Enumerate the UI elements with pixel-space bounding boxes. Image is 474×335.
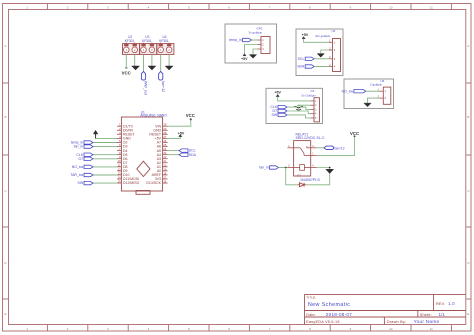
svg-text:TITLE:: TITLE: <box>306 295 316 299</box>
ground (GP1) <box>249 55 256 59</box>
svg-text:1/1: 1/1 <box>439 312 446 317</box>
power flag +5V (U5) <box>302 33 309 39</box>
svg-text:E: E <box>4 312 6 316</box>
wire temp_in to GP1.1 <box>252 39 258 41</box>
RELAY1 pin 5 (coil left) <box>287 165 293 168</box>
wire U1 to net TAR_sw <box>93 174 117 176</box>
svg-text:10: 10 <box>389 5 393 9</box>
svg-text:+5V: +5V <box>302 33 309 37</box>
screw terminal U4 KF301 <box>157 35 174 54</box>
svg-text:New Schematic: New Schematic <box>308 302 350 308</box>
svg-text:WW_out: WW_out <box>144 81 148 95</box>
svg-text:SRD-12VDC-SL-C: SRD-12VDC-SL-C <box>296 136 325 140</box>
wire SDA to U5.4 <box>314 66 329 68</box>
svg-text:KF301: KF301 <box>142 39 152 43</box>
net flag NO_sw <box>84 165 93 168</box>
title block <box>305 294 466 324</box>
wire U4.2 to ground <box>168 54 170 66</box>
U1 diamond logo <box>137 161 150 176</box>
power flag VCC (relay) <box>350 131 359 137</box>
U1 right pins <box>146 123 167 186</box>
wire NO_sw to U6.1 <box>366 90 380 92</box>
svg-text:NO_sw: NO_sw <box>72 165 84 169</box>
wire U1.A5 to SCL <box>168 150 179 152</box>
RELAY1 switch arm <box>294 146 311 155</box>
connector GP1 3x goldpin <box>249 26 271 53</box>
svg-text:U5: U5 <box>332 29 336 33</box>
svg-text:fan+12: fan+12 <box>334 146 344 150</box>
wire U2.1 to VCC <box>125 54 127 68</box>
power flag +5V (GP1) <box>241 54 248 61</box>
RELAY1 pin 2 (common) <box>287 145 293 148</box>
svg-text:KF301: KF301 <box>159 39 169 43</box>
wire U6.2 to ground <box>368 98 380 103</box>
svg-text:4x1 goldpin: 4x1 goldpin <box>315 34 331 38</box>
net flag fan_in <box>270 166 279 169</box>
wire U1.+5V to +5V flag <box>168 136 181 138</box>
svg-text:B: B <box>467 115 469 119</box>
net flag SCL (U5) <box>305 57 314 60</box>
wire U1 to net temp_in <box>93 142 117 144</box>
screw terminal U2 KF301 <box>123 35 140 54</box>
svg-text:B: B <box>4 115 6 119</box>
ground arrow (U1 GND) <box>93 130 98 138</box>
svg-text:TAR_sw: TAR_sw <box>70 173 83 177</box>
net flag SW (G1) <box>278 113 287 116</box>
wire U1 to net fan_in <box>93 146 117 148</box>
svg-text:temp_in: temp_in <box>229 38 242 42</box>
module box G1 5x Goldpin <box>266 88 323 123</box>
wire G1.2 to ground arrow <box>299 105 311 106</box>
svg-text:1.0: 1.0 <box>448 301 455 306</box>
diode D1 1N4007PLS <box>297 174 320 187</box>
svg-text:REV.: REV. <box>436 302 445 306</box>
svg-text:EasyEDA V5.6.15: EasyEDA V5.6.15 <box>306 320 339 324</box>
screw terminal U3 KF301 <box>140 35 157 54</box>
wire SW to G1.5 <box>287 115 311 118</box>
svg-text:fan_in: fan_in <box>259 166 269 170</box>
RELAY1 pin 1 (NC contact) <box>311 153 317 156</box>
RELAY1 coil <box>294 165 311 171</box>
svg-text:VCC: VCC <box>186 113 195 118</box>
wire SCL to U5.3 <box>314 58 329 60</box>
RELAY1 pin 3 (NO contact) <box>311 145 317 148</box>
net label fan+12 (vertical) <box>159 71 165 92</box>
relay RELAY1 SRD-12VDC-SL-C <box>294 133 325 176</box>
wire U4.1 to net flag <box>160 54 162 71</box>
wire fan_in to RELAY1.5 <box>279 167 288 169</box>
junction (fan_in / diode) <box>285 167 287 169</box>
net flag temp_in <box>84 141 93 144</box>
net flag SCL <box>179 149 188 152</box>
wire U1 to net CLK <box>93 154 117 156</box>
svg-text:2018-08-07: 2018-08-07 <box>326 312 352 317</box>
wire DT to G1.4 <box>287 111 311 114</box>
net flag DT (G1) <box>278 109 287 112</box>
connector G1 5x Goldpin <box>302 89 320 122</box>
wire U1.A4 to SDA <box>168 154 179 156</box>
svg-text:A: A <box>467 44 469 48</box>
svg-text:SDA: SDA <box>297 65 305 69</box>
svg-text:D13/SCK: D13/SCK <box>146 181 161 185</box>
power flag +5V (U1) <box>178 131 185 136</box>
wire RELAY1.3 to fan+12 <box>316 147 324 149</box>
svg-text:D12/MISO: D12/MISO <box>123 181 140 185</box>
wire +5V to G1.1 <box>278 97 311 101</box>
svg-text:G1: G1 <box>311 89 315 93</box>
svg-text:E: E <box>467 312 469 316</box>
svg-text:10: 10 <box>389 327 393 331</box>
svg-text:5x Goldpin: 5x Goldpin <box>302 93 317 97</box>
svg-text:A: A <box>4 44 6 48</box>
net flag SDA <box>179 153 188 156</box>
net flag SW <box>84 181 93 184</box>
svg-text:11: 11 <box>430 5 433 9</box>
ground arrow (G1) <box>295 106 303 110</box>
svg-text:SW: SW <box>272 113 278 117</box>
svg-text:3x goldpin: 3x goldpin <box>249 31 263 35</box>
net flag NO_sw (U6) <box>354 90 366 93</box>
wire GP1.2 to +5V <box>245 45 258 54</box>
net flag temp_in (GP1) <box>243 38 252 41</box>
power flag VCC (U1) <box>186 113 195 121</box>
svg-text:KF301: KF301 <box>125 39 135 43</box>
svg-text:fan_in: fan_in <box>74 145 84 149</box>
svg-text:VCC: VCC <box>350 131 359 136</box>
svg-text:+5V: +5V <box>274 91 281 95</box>
wire +5V to U5.1 <box>304 39 329 43</box>
power flag +5V (G1) <box>274 91 281 97</box>
net tag fan+12 <box>324 146 345 150</box>
RELAY1 pin 4 (coil right) <box>311 165 317 168</box>
wire U3.2 to ground <box>151 54 153 66</box>
wire U5.2 to ground <box>321 50 329 53</box>
svg-text:11: 11 <box>430 327 433 331</box>
ground (U3) <box>148 66 156 70</box>
net flag fan_in <box>84 145 93 148</box>
module box U5 4x1 goldpin <box>296 29 343 76</box>
svg-text:+5V: +5V <box>241 57 248 61</box>
U1 left pins <box>117 123 140 186</box>
net flag TAR_sw <box>84 173 93 176</box>
svg-text:SDA: SDA <box>189 153 197 157</box>
MCU module U1 ARDUINO_NANO <box>121 111 167 191</box>
svg-text:Sheet:: Sheet: <box>420 313 432 317</box>
U1 usb tab <box>136 191 150 195</box>
wire U1.VIN to VCC <box>168 120 191 126</box>
module box U6 2 goldpin <box>344 79 394 109</box>
svg-text:Date:: Date: <box>306 313 316 317</box>
net flag SDA (U5) <box>305 65 314 68</box>
wire U1 to net SW <box>93 182 117 184</box>
svg-text:fan+12: fan+12 <box>161 81 165 92</box>
connector U6 2 goldpin <box>370 79 391 104</box>
wire VCC to RELAY1.1 <box>316 137 354 156</box>
svg-text:VCC: VCC <box>122 70 131 75</box>
svg-text:SCL: SCL <box>298 57 305 61</box>
svg-text:+5V: +5V <box>178 131 185 135</box>
svg-text:Your Name: Your Name <box>414 319 440 324</box>
wire U3.1 to net flag <box>143 54 145 71</box>
wire U1 to net DT <box>93 158 117 160</box>
wire CLK to G1.3 with hop <box>287 105 311 109</box>
connector U5 4x1 goldpin <box>315 29 341 71</box>
wire D1 cathode to gnd junction <box>306 168 330 185</box>
svg-text:NO_sw: NO_sw <box>342 89 354 93</box>
module box GP1 3x goldpin <box>225 24 277 63</box>
ground (relay coil) <box>326 169 334 173</box>
power flag VCC (U2) <box>122 68 131 75</box>
junction (coil / ground) <box>329 167 331 169</box>
svg-text:2 goldpin: 2 goldpin <box>370 83 383 87</box>
ground (U5) <box>317 54 324 58</box>
ground (U2) <box>132 66 140 70</box>
net flag CLK (G1) <box>278 105 287 108</box>
ground (U6) <box>364 103 371 107</box>
svg-text:Drawn By:: Drawn By: <box>387 320 406 324</box>
ground (U4) <box>165 66 173 70</box>
wire U2.2 to ground <box>134 54 136 66</box>
net label WW (vertical) <box>141 71 147 94</box>
net flag DT <box>84 157 93 160</box>
net flag CLK <box>84 153 93 156</box>
wire GP1.3 to ground <box>253 49 258 54</box>
svg-text:1N4007PLS: 1N4007PLS <box>300 178 320 182</box>
svg-text:SW: SW <box>78 181 84 185</box>
wire U1.GND to gnd arrow <box>96 134 117 139</box>
wire junction down to D1 anode <box>286 168 298 185</box>
wire U1 to net NO_sw <box>93 166 117 168</box>
